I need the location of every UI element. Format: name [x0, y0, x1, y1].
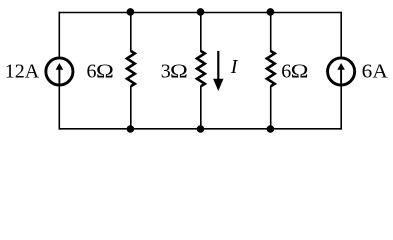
- wire branch 2 upper segment: [130, 13, 132, 52]
- node dot bottom branch 4: [267, 125, 275, 133]
- wire bottom rail: [59, 128, 343, 130]
- node dot bottom branch 2: [127, 125, 135, 133]
- svg-text:6A: 6A: [362, 61, 389, 83]
- wire left branch lower segment: [58, 86, 60, 130]
- node dot top branch 2: [127, 8, 135, 16]
- node dot top branch 4: [267, 8, 275, 16]
- wire top rail: [59, 12, 343, 14]
- wire right branch lower segment: [340, 86, 342, 130]
- wire left branch upper segment: [58, 12, 60, 58]
- svg-text:I: I: [230, 56, 239, 78]
- node dot bottom branch 3: [197, 125, 205, 133]
- current source I2 arrow: [340, 69, 342, 85]
- resistor R2 (3 ohm): [197, 51, 205, 86]
- wire branch 3 lower segment: [200, 86, 202, 129]
- svg-text:Ω: Ω: [170, 60, 188, 83]
- svg-text:6: 6: [87, 61, 97, 83]
- resistor R3 (6 ohm): [267, 51, 275, 86]
- svg-text:12A: 12A: [5, 61, 40, 83]
- current arrow I: [217, 51, 219, 81]
- wire branch 2 lower segment: [130, 86, 132, 129]
- wire branch 4 upper segment: [270, 13, 272, 52]
- svg-text:Ω: Ω: [96, 60, 114, 83]
- node dot top branch 3: [197, 8, 205, 16]
- wire branch 4 lower segment: [270, 86, 272, 129]
- current source I1 (12A) circle: [46, 58, 73, 85]
- wire branch 3 upper segment: [200, 13, 202, 52]
- wire right branch upper segment: [340, 12, 342, 58]
- resistor R1 (6 ohm): [127, 51, 135, 86]
- current source I1 arrow: [58, 69, 60, 85]
- svg-text:Ω: Ω: [291, 60, 309, 83]
- current source I2 (6A) circle: [328, 58, 355, 85]
